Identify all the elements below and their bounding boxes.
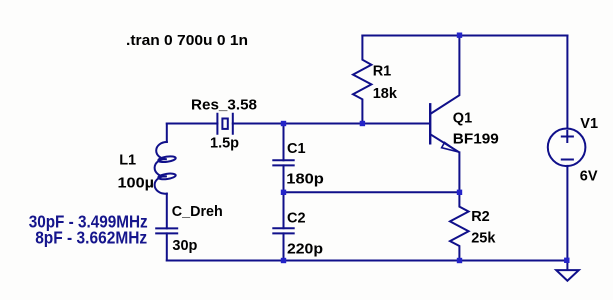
junction ground node	[564, 258, 569, 263]
svg-text:Q1: Q1	[453, 110, 472, 126]
svg-text:V1: V1	[580, 116, 598, 132]
svg-text:25k: 25k	[471, 231, 496, 247]
svg-text:220p: 220p	[287, 242, 323, 258]
wire mid net	[284, 191, 460, 193]
junction collector top	[457, 33, 462, 38]
junction R1 base	[360, 121, 365, 126]
wire crystal to base	[233, 123, 429, 125]
wire V1 bottom lead	[566, 166, 568, 261]
transistor Q1 emitter	[431, 135, 460, 193]
wire top rail	[362, 35, 567, 37]
junction R2 bottom	[457, 258, 462, 263]
crystal Res_3.58	[217, 114, 232, 134]
wire V1 top lead	[566, 36, 568, 129]
resistor R2	[450, 192, 469, 260]
svg-text:8pF - 3.662MHz: 8pF - 3.662MHz	[35, 228, 147, 248]
svg-text:C1: C1	[287, 141, 306, 157]
svg-text:.tran 0 700u 0 1n: .tran 0 700u 0 1n	[126, 33, 248, 49]
transistor Q1 base bar	[429, 104, 431, 143]
junction C2 bottom	[281, 258, 286, 263]
svg-text:6V: 6V	[580, 168, 598, 184]
wire L1 to C_Dreh	[166, 194, 168, 229]
voltage source V1	[548, 129, 586, 167]
svg-text:180p: 180p	[286, 171, 324, 187]
ground	[566, 261, 568, 270]
junction C1 top	[281, 121, 286, 126]
wire bottom rail	[167, 260, 568, 262]
wire base net left	[167, 123, 218, 125]
svg-text:R2: R2	[471, 209, 490, 225]
svg-text:BF199: BF199	[453, 132, 499, 148]
capacitor C1	[283, 124, 285, 161]
svg-text:100µ: 100µ	[118, 176, 155, 192]
capacitor C_Dreh plates	[156, 228, 177, 233]
wire C_Dreh bottom lead	[166, 233, 168, 260]
svg-text:18k: 18k	[373, 86, 398, 102]
svg-text:L1: L1	[119, 153, 136, 169]
svg-text:R1: R1	[373, 63, 392, 79]
junction C1-C2 mid	[281, 190, 286, 195]
svg-text:30p: 30p	[172, 238, 197, 254]
inductor L1	[155, 142, 167, 194]
resistor R1	[353, 36, 371, 124]
svg-text:Res_3.58: Res_3.58	[191, 97, 257, 113]
capacitor C2	[283, 192, 285, 228]
transistor Q1 collector	[431, 36, 460, 114]
svg-text:C2: C2	[287, 210, 306, 226]
junction R2 top	[457, 190, 462, 195]
transistor Q1 emitter arrow	[442, 142, 458, 152]
svg-text:C_Dreh: C_Dreh	[172, 204, 223, 220]
wire L1 top lead	[166, 124, 168, 143]
svg-text:1.5p: 1.5p	[210, 135, 239, 151]
